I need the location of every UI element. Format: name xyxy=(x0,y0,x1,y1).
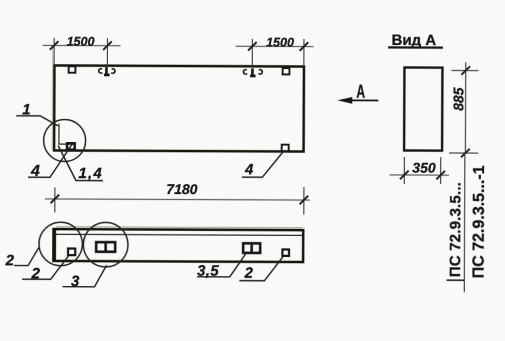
embed square bottom-left (plan) xyxy=(67,143,75,149)
svg-text:2: 2 xyxy=(244,265,254,282)
label 3,5 with leader xyxy=(197,253,246,279)
plan view outline xyxy=(54,65,304,151)
end view outline xyxy=(404,67,442,150)
scan ghost line above elevation xyxy=(56,227,303,228)
label 4 right with leader xyxy=(242,152,283,178)
elevation double plate left xyxy=(96,242,115,252)
label 4 left with leader xyxy=(28,144,72,180)
label 2 right with leader xyxy=(239,256,283,281)
svg-text:2: 2 xyxy=(5,252,15,269)
svg-text:350: 350 xyxy=(412,160,436,176)
embed square top-left (plan) xyxy=(69,66,76,72)
elevation left end thickening xyxy=(54,229,56,261)
embed square top-right (plan) xyxy=(283,68,290,74)
dimension 7180 xyxy=(45,180,310,214)
dimension 885 xyxy=(449,62,478,157)
lifting loop right xyxy=(243,68,262,76)
label 1 with leader xyxy=(16,101,58,126)
detail circle elevation left xyxy=(39,222,83,266)
svg-text:885: 885 xyxy=(450,87,466,111)
designation PS 72.9.3.5 left column xyxy=(447,182,465,280)
elevation embed square left xyxy=(68,249,75,256)
elevation outline xyxy=(53,229,303,262)
label 2 second with leader xyxy=(22,256,68,283)
svg-text:1500: 1500 xyxy=(67,35,95,49)
section arrow A xyxy=(337,82,378,104)
elevation embed square right xyxy=(282,249,289,255)
corner detail step lines xyxy=(59,123,75,144)
detail circle plan corner xyxy=(44,119,86,161)
dimension 1500 left xyxy=(42,34,120,65)
svg-text:ПС 72.9.3.5...-1: ПС 72.9.3.5...-1 xyxy=(471,165,488,278)
label 3 with leader xyxy=(62,265,106,290)
svg-text:1500: 1500 xyxy=(266,35,294,49)
svg-text:7180: 7180 xyxy=(166,181,197,197)
dimension 1500 right xyxy=(235,35,313,67)
svg-text:1,4: 1,4 xyxy=(78,165,103,182)
svg-text:4: 4 xyxy=(244,161,254,178)
view title Vid A xyxy=(388,32,443,49)
table rule vertical xyxy=(463,153,466,292)
embed square bottom-right (plan) xyxy=(282,145,289,152)
elevation chamfer line xyxy=(55,234,302,235)
dimension 350 xyxy=(389,157,449,184)
label 1,4 with leader xyxy=(58,145,103,182)
designation PS 72.9.3.5-1 right column xyxy=(471,165,488,278)
svg-text:ПС 72.9.3.5...: ПС 72.9.3.5... xyxy=(447,182,464,277)
elevation double plate right xyxy=(243,243,260,253)
scan ghost line left of plan xyxy=(51,46,53,149)
lifting loop left xyxy=(99,67,115,75)
label 2 far left with leader xyxy=(5,247,39,269)
detail circle elevation middle xyxy=(83,222,128,267)
